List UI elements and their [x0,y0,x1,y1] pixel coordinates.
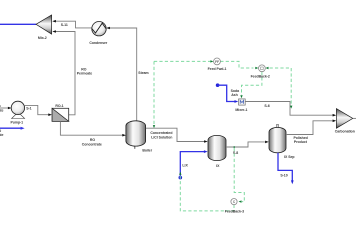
svg-text:Feed Fwd-1: Feed Fwd-1 [208,67,227,71]
controller FeedBack-2 [240,65,292,109]
wire stream Soda Ash into Mixer-1 (blue) [216,83,239,103]
svg-text:S-8: S-8 [233,151,238,155]
heat-exchanger Condenser [89,22,108,46]
vessel IX [208,135,226,168]
controller FeedBack-3 [179,146,244,213]
wire stream S-8 IX to IX Sep [226,141,269,156]
vessel Boiler [126,121,153,153]
wire stream S-6 Mixer-1 to Carbonation [245,102,336,117]
wire stream Concentrated LiCl Solution boiler to IX [146,128,208,143]
svg-text:FeedBack-2: FeedBack-2 [251,74,270,78]
mixer Mix-2 [36,15,52,40]
svg-text:FF: FF [215,60,219,64]
wire stream Polished Product IX Sep to Carbonation [286,120,336,145]
svg-text:S-10: S-10 [280,174,287,178]
wire stream Distillate out of Mix-2 (blue) [0,23,36,25]
wire stream RO Permeate RO-1 to Mix-2 [52,30,92,115]
svg-text:Concentrate: Concentrate [82,143,102,147]
svg-text:S-1: S-1 [26,107,31,111]
svg-text:Mixer-1: Mixer-1 [235,108,247,112]
svg-text:Permeate: Permeate [0,133,4,137]
svg-text:Mix-2: Mix-2 [38,36,47,40]
mixer Carbonation [335,109,356,134]
svg-text:Permeate: Permeate [77,71,93,75]
svg-text:S-6: S-6 [264,104,269,108]
membrane unit RO-1 [52,104,69,121]
svg-text:LiCl Solution: LiCl Solution [151,136,172,140]
svg-text:IX Sep: IX Sep [284,155,294,159]
svg-text:Boiler: Boiler [142,149,152,153]
svg-text:FeedBack-3: FeedBack-3 [225,209,244,213]
blue inlet arrow bottom-left [0,127,25,138]
svg-text:S-11: S-11 [61,23,68,27]
svg-text:LiX: LiX [182,163,188,167]
wire stream LiX into IX (blue) [179,150,208,179]
mixer small Mixer-1 [235,99,247,112]
svg-text:Steam: Steam [138,71,148,75]
svg-text:Condenser: Condenser [89,41,108,45]
svg-text:Carbonation: Carbonation [335,130,355,134]
svg-text:RO-1: RO-1 [55,104,63,108]
wire stream S-1 pump to RO-1 [24,105,52,116]
controller Feed Fwd-1 [153,58,254,128]
svg-text:Product: Product [294,140,308,144]
wire stream RO Concentrate RO-1 to Boiler [60,121,126,146]
pump Pump-1 [10,101,24,124]
vessel IX Sep [269,124,295,159]
wire stream S-10 out of IX Sep (blue) [278,153,294,184]
svg-text:Concentrated: Concentrated [150,131,172,135]
svg-text:Pump-1: Pump-1 [10,121,23,125]
svg-text:Ash: Ash [231,93,238,97]
wire stream MF Permeate into Pump-1 [0,104,12,112]
wire stream Steam boiler to condenser [106,27,148,122]
svg-text:Permeate: Permeate [0,108,4,112]
wire stream S-11 condenser to Mix-2 [52,20,92,28]
